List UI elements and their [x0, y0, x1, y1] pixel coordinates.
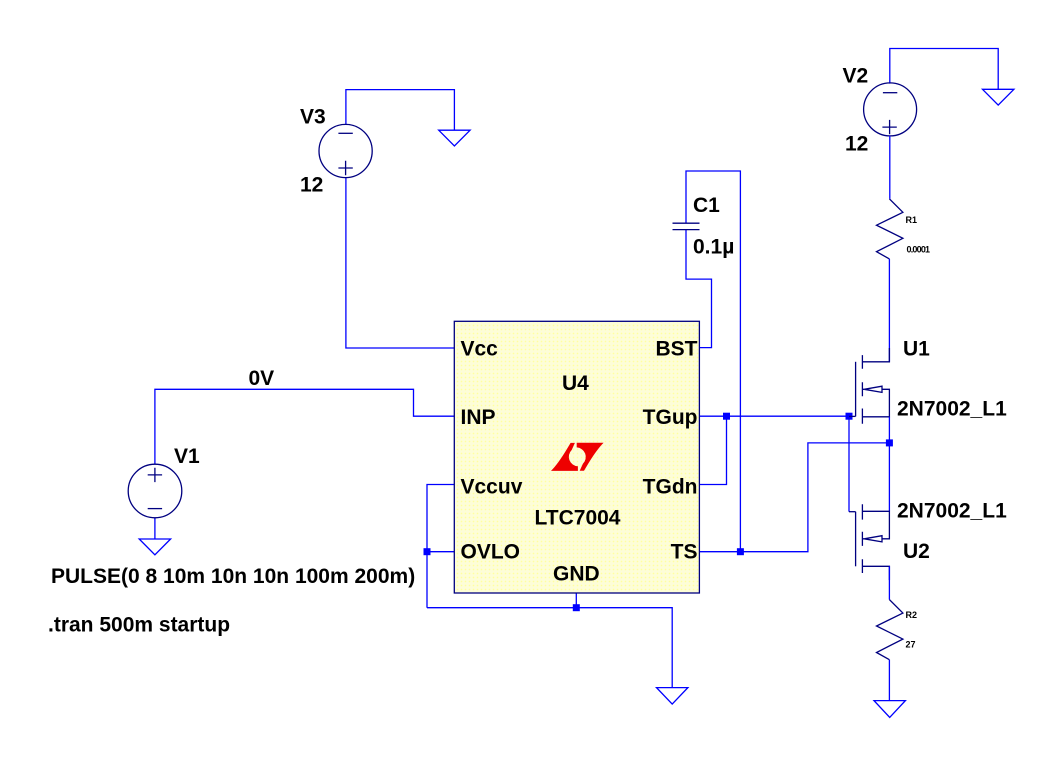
wire V1 minus to ground: [154, 518, 156, 539]
svg-text:0.1µ: 0.1µ: [693, 236, 734, 259]
wire V3 plus to Vcc pin: [346, 178, 454, 349]
junction TS / C1 node: [737, 548, 744, 555]
op-amp U4 body (LTC7004 symbol): [454, 321, 699, 593]
svg-text:12: 12: [845, 133, 868, 156]
ground flag (V3 branch): [439, 130, 470, 146]
voltage source V2: [864, 83, 917, 136]
svg-text:Vcc: Vcc: [461, 338, 499, 361]
wire V2 minus terminal to ground: [890, 49, 998, 90]
svg-text:V3: V3: [300, 106, 326, 129]
resistor R1: [877, 199, 903, 259]
svg-text:INP: INP: [461, 406, 496, 429]
logo LT (right glyph): [577, 443, 604, 471]
wire V3 minus terminal to ground: [346, 90, 455, 131]
ground flag (V2 branch): [983, 89, 1014, 105]
svg-text:U4: U4: [562, 372, 589, 395]
svg-text:U1: U1: [903, 338, 930, 361]
svg-text:PULSE(0 8 10m 10n 10n 100m 200: PULSE(0 8 10m 10n 10n 100m 200m): [51, 565, 415, 588]
junction OVLO node: [424, 548, 431, 555]
svg-text:12: 12: [300, 174, 323, 197]
svg-text:2N7002_L1: 2N7002_L1: [897, 398, 1007, 421]
svg-text:TGdn: TGdn: [643, 476, 698, 499]
wire TGup pin to U1 gate: [699, 415, 849, 417]
svg-text:V2: V2: [843, 65, 869, 88]
svg-text:BST: BST: [656, 338, 698, 361]
wire TGdn pin tied to TGup: [699, 416, 726, 484]
svg-text:0V: 0V: [249, 367, 275, 390]
ground flag (V1 branch): [139, 539, 170, 555]
svg-text:27: 27: [906, 640, 916, 650]
capacitor C1: [673, 223, 700, 229]
resistor R2: [877, 600, 903, 660]
ground flag (R2 branch): [874, 701, 905, 718]
svg-text:LTC7004: LTC7004: [535, 507, 621, 530]
svg-text:TS: TS: [671, 541, 698, 564]
junction GND node: [573, 604, 580, 611]
logo LT (left glyph): [551, 443, 578, 471]
wire TS pin to MOSFET midpoint node: [699, 443, 889, 552]
wire C1 bottom to BST pin: [686, 230, 712, 348]
svg-text:R2: R2: [906, 610, 918, 620]
svg-text:.tran 500m startup: .tran 500m startup: [48, 614, 230, 637]
svg-text:0.0001: 0.0001: [907, 245, 931, 255]
svg-text:Vccuv: Vccuv: [461, 476, 523, 499]
svg-text:OVLO: OVLO: [461, 541, 521, 564]
junction TGup/TGdn node: [723, 413, 730, 420]
svg-text:V1: V1: [174, 445, 200, 468]
transistor U2 (NMOS 2N7002_L1, mirrored): [849, 504, 889, 580]
ground flag (GND rail): [657, 688, 688, 705]
svg-text:R1: R1: [906, 215, 918, 225]
wire U2 source to R2: [888, 566, 890, 599]
wire GND pin stub: [575, 593, 577, 608]
wire Vccuv pin to left rail: [427, 485, 454, 608]
svg-text:U2: U2: [903, 540, 930, 563]
wire gate drop to U2 gate: [848, 416, 850, 512]
wire bottom ground rail: [427, 608, 672, 688]
wire U1 source to U2 drain: [888, 417, 890, 511]
wire C1 top to TS line: [686, 171, 740, 552]
junction U1 gate node: [846, 413, 853, 420]
transistor U1 (NMOS 2N7002_L1): [849, 348, 889, 424]
wire OVLO pin: [427, 551, 454, 553]
voltage source V3: [319, 124, 372, 177]
voltage source V1: [128, 464, 182, 518]
wire R2 to ground: [888, 660, 890, 701]
svg-text:C1: C1: [693, 194, 720, 217]
svg-text:TGup: TGup: [643, 406, 698, 429]
wire V1 plus to INP pin: [155, 389, 454, 464]
svg-text:2N7002_L1: 2N7002_L1: [897, 500, 1007, 523]
wire V2 plus to R1: [889, 136, 891, 199]
wire R1 to U1 drain: [888, 259, 890, 362]
junction source-drain node: [886, 439, 893, 446]
svg-text:GND: GND: [553, 563, 600, 586]
